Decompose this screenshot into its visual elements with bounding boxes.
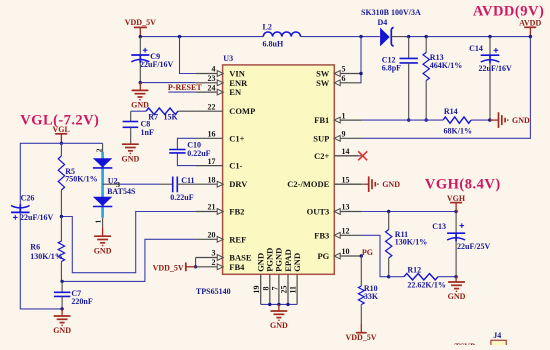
resistor R11 130K/1% bbox=[386, 212, 428, 277]
net label P-RESET bbox=[168, 83, 202, 92]
U3 right pin names bbox=[287, 69, 330, 262]
capacitor C12 6.8pF bbox=[382, 37, 418, 121]
capacitor C7 220nF bbox=[54, 281, 93, 309]
wire C26 down to C7 bottom bbox=[20, 212, 62, 309]
node junction VDD/C9 bbox=[139, 35, 142, 38]
svg-text:C2+: C2+ bbox=[314, 151, 329, 161]
node junction C12 bottom bbox=[407, 118, 410, 121]
svg-text:D4: D4 bbox=[378, 18, 388, 27]
svg-text:J4: J4 bbox=[493, 331, 501, 340]
svg-text:22uF/16V: 22uF/16V bbox=[479, 64, 513, 73]
svg-text:22: 22 bbox=[208, 102, 216, 111]
wire D4 cathode to AVDD rail bbox=[405, 36, 530, 38]
node junction OUT3/C13/VGH bbox=[454, 210, 457, 213]
wire U2 pin 3 to C11 bbox=[103, 183, 120, 185]
svg-text:10: 10 bbox=[342, 247, 350, 256]
svg-text:5: 5 bbox=[342, 65, 346, 74]
svg-text:464K/1%: 464K/1% bbox=[430, 61, 462, 70]
label TPS65140 bbox=[196, 287, 231, 296]
power AVDD bbox=[519, 19, 541, 37]
node junction VIN branch bbox=[178, 35, 181, 38]
svg-text:C1-: C1- bbox=[229, 161, 242, 171]
resistor R10 33K bbox=[358, 256, 379, 323]
node junction C7/GND bbox=[60, 307, 63, 310]
svg-text:220nF: 220nF bbox=[71, 297, 92, 306]
capacitor C26 22uF/16V bbox=[11, 194, 54, 222]
resistor R12 22.62K/1% bbox=[389, 265, 456, 289]
wire FB3 path bbox=[361, 235, 388, 276]
svg-text:19: 19 bbox=[252, 286, 261, 294]
svg-text:1: 1 bbox=[342, 111, 346, 120]
svg-text:VGH: VGH bbox=[447, 194, 466, 203]
svg-text:GND: GND bbox=[53, 326, 71, 335]
svg-text:750K/1%: 750K/1% bbox=[65, 174, 97, 183]
wire OUT3 row bbox=[361, 211, 456, 213]
wire REF path to pin 20 bbox=[62, 239, 196, 281]
svg-text:R14: R14 bbox=[444, 107, 458, 116]
svg-text:13: 13 bbox=[342, 203, 350, 212]
svg-text:9: 9 bbox=[342, 130, 346, 139]
svg-text:15: 15 bbox=[342, 175, 350, 184]
svg-text:EN: EN bbox=[229, 87, 242, 97]
svg-text:8: 8 bbox=[261, 287, 270, 291]
svg-text:R12: R12 bbox=[407, 265, 421, 274]
svg-text:18: 18 bbox=[208, 175, 216, 184]
ground at pin 15 (sideways) bbox=[334, 176, 400, 192]
svg-text:3: 3 bbox=[212, 249, 216, 258]
svg-text:TPS65140: TPS65140 bbox=[196, 287, 231, 296]
svg-text:FB1: FB1 bbox=[314, 115, 329, 125]
svg-text:0.22uF: 0.22uF bbox=[170, 193, 193, 202]
svg-text:VGH(8.4V): VGH(8.4V) bbox=[425, 176, 501, 192]
svg-text:VGL: VGL bbox=[53, 125, 70, 134]
U3 left pin arrows bbox=[217, 71, 223, 270]
ground below C9 bbox=[131, 83, 149, 110]
svg-text:4: 4 bbox=[212, 65, 216, 74]
svg-text:BAT54S: BAT54S bbox=[107, 187, 136, 196]
svg-text:GND: GND bbox=[512, 116, 530, 125]
ground below C13 bbox=[448, 277, 466, 302]
wire VDD_5V rail to L2 bbox=[140, 36, 263, 38]
svg-text:VDD_5V: VDD_5V bbox=[345, 333, 376, 342]
wire PG row bbox=[360, 255, 362, 257]
resistor R7 15K bbox=[131, 108, 196, 121]
U3 left pin stubs bbox=[196, 74, 223, 267]
wire L2 to D4 bbox=[301, 36, 380, 38]
svg-text:GND: GND bbox=[122, 154, 140, 163]
label U2 pin 3 bbox=[116, 180, 120, 189]
wire SW branch down bbox=[360, 37, 362, 83]
svg-text:22uF/25V: 22uF/25V bbox=[457, 242, 491, 251]
svg-text:6.8uH: 6.8uH bbox=[263, 39, 284, 48]
net label AVDD(9V) bbox=[473, 4, 544, 20]
ground below U3 bbox=[270, 304, 288, 330]
svg-text:25: 25 bbox=[280, 286, 289, 294]
power VGH bbox=[447, 194, 466, 212]
capacitor C13 22uF/25V bbox=[432, 212, 490, 277]
svg-text:FB2: FB2 bbox=[229, 207, 244, 217]
svg-text:C1+: C1+ bbox=[229, 133, 244, 143]
capacitor C14 22uF/16V bbox=[469, 37, 512, 121]
svg-text:C26: C26 bbox=[21, 194, 35, 203]
svg-text:U3: U3 bbox=[223, 54, 233, 63]
svg-text:VDD_5V: VDD_5V bbox=[125, 18, 156, 27]
svg-text:130K/1%: 130K/1% bbox=[395, 238, 427, 247]
U3 left pin names bbox=[229, 69, 255, 272]
svg-text:2: 2 bbox=[94, 148, 103, 152]
power VGL bbox=[53, 125, 70, 143]
resistor R6 130K/1% bbox=[30, 217, 64, 282]
wire VGL to C26 bbox=[20, 143, 61, 204]
svg-text:15K: 15K bbox=[164, 112, 179, 121]
svg-text:2: 2 bbox=[212, 258, 216, 267]
svg-text:SUP: SUP bbox=[313, 133, 329, 143]
svg-text:FB3: FB3 bbox=[314, 230, 329, 240]
svg-text:22uF/16V: 22uF/16V bbox=[140, 60, 174, 69]
wire VIN branch down to pin 4 bbox=[180, 37, 196, 74]
wire BASE/FB4 tie bbox=[195, 258, 197, 267]
svg-text:16: 16 bbox=[208, 130, 216, 139]
svg-text:OUT3: OUT3 bbox=[307, 207, 330, 217]
node junction PG/R10 bbox=[360, 254, 363, 257]
svg-text:C13: C13 bbox=[432, 222, 446, 231]
svg-text:GND: GND bbox=[382, 180, 400, 189]
label U2 refdes bbox=[107, 176, 136, 196]
net label VGL(-7.2V) bbox=[20, 112, 99, 128]
node junction SW pins bbox=[359, 72, 362, 75]
net label P-RESET wire to pin 24 bbox=[168, 91, 195, 93]
svg-text:C14: C14 bbox=[469, 44, 483, 53]
svg-text:FB4: FB4 bbox=[229, 262, 245, 272]
net label VGH(8.4V) bbox=[425, 176, 501, 192]
label TSVP (cut off) bbox=[455, 342, 476, 350]
ground below C7 bbox=[53, 309, 71, 335]
svg-text:68K/1%: 68K/1% bbox=[444, 127, 472, 136]
capacitor C11 0.22uF bbox=[120, 176, 196, 202]
svg-text:U2: U2 bbox=[108, 176, 118, 185]
U3 right pin arrows bbox=[334, 71, 340, 259]
svg-text:GND: GND bbox=[448, 292, 466, 301]
svg-text:GND: GND bbox=[94, 246, 112, 255]
power VDD_5V (at FB4) bbox=[153, 262, 196, 272]
svg-text:PG: PG bbox=[362, 248, 373, 257]
svg-text:6: 6 bbox=[342, 74, 346, 83]
diode D4 SK310B bbox=[361, 8, 421, 47]
net label PG bbox=[362, 248, 373, 257]
svg-text:C2-/MODE: C2-/MODE bbox=[287, 179, 329, 189]
wire FB1 row bbox=[361, 119, 443, 121]
node junction R14/C14/GND bbox=[488, 118, 491, 121]
node junction R11/R12/FB3 bbox=[387, 275, 390, 278]
node junction R13 top bbox=[425, 35, 428, 38]
U3 left pin numbers bbox=[208, 65, 216, 267]
svg-text:L2: L2 bbox=[263, 22, 272, 31]
node junction R13 bottom bbox=[425, 118, 428, 121]
node junction FB4/VDD bbox=[194, 265, 197, 268]
capacitor C10 0.22uF bbox=[169, 138, 210, 165]
connector J4 (partial) bbox=[491, 331, 506, 346]
svg-text:12: 12 bbox=[342, 227, 350, 236]
node junction C9/ENR/GND bbox=[139, 81, 142, 84]
svg-text:AVDD(9V): AVDD(9V) bbox=[473, 4, 544, 20]
svg-text:130K/1%: 130K/1% bbox=[30, 252, 62, 261]
ground right of R14 (sideways) bbox=[490, 112, 530, 128]
node junction C14 top bbox=[488, 35, 491, 38]
wire ENR to pin 23 bbox=[140, 82, 195, 84]
svg-text:17: 17 bbox=[208, 157, 216, 166]
svg-text:AVDD: AVDD bbox=[519, 19, 541, 28]
svg-text:21: 21 bbox=[208, 203, 216, 212]
svg-text:P-RESET: P-RESET bbox=[168, 83, 202, 92]
U3 bottom pin stubs bbox=[261, 274, 297, 304]
wire FB2 path to pin 21 bbox=[61, 212, 195, 273]
capacitor C9 22uF/16V bbox=[131, 37, 173, 83]
svg-text:1: 1 bbox=[93, 220, 102, 224]
inductor L2 6.8uH bbox=[263, 22, 301, 48]
svg-text:7: 7 bbox=[270, 287, 279, 291]
node junction R6/C7/REF bbox=[60, 280, 63, 283]
svg-text:SK310B 100V/3A: SK310B 100V/3A bbox=[361, 8, 421, 17]
svg-text:PG: PG bbox=[317, 251, 329, 261]
svg-text:22uF/16V: 22uF/16V bbox=[20, 213, 54, 222]
node junction C12 top bbox=[407, 35, 410, 38]
U3 bottom pin names GND PGND PGND EPAD GND bbox=[256, 248, 302, 272]
svg-text:GND: GND bbox=[270, 321, 288, 330]
svg-text:VDD_5V: VDD_5V bbox=[153, 264, 184, 273]
svg-text:SW: SW bbox=[316, 78, 330, 88]
node junction R5/R6/FB2 bbox=[60, 215, 63, 218]
svg-text:C11: C11 bbox=[181, 176, 194, 185]
node junction R12/C13/GND bbox=[454, 275, 457, 278]
svg-text:11: 11 bbox=[289, 286, 298, 294]
U3 right pin numbers bbox=[342, 65, 350, 257]
node junction AVDD bbox=[529, 35, 532, 38]
node junctions bottom pins bbox=[268, 303, 290, 306]
svg-text:COMP: COMP bbox=[229, 106, 255, 116]
svg-text:22.62K/1%: 22.62K/1% bbox=[407, 280, 445, 289]
power VDD_5V (below R10) bbox=[345, 323, 376, 342]
svg-text:R6: R6 bbox=[30, 242, 40, 251]
wire VGL to U2 bbox=[61, 142, 102, 144]
resistor R13 464K/1% bbox=[423, 37, 462, 121]
node junction OUT3/R11 bbox=[387, 210, 390, 213]
svg-text:REF: REF bbox=[229, 234, 246, 244]
IC U3 TPS65140 body bbox=[223, 54, 335, 274]
svg-text:GND: GND bbox=[292, 253, 302, 272]
U3 bottom pin numbers 19 8 7 25 11 bbox=[252, 286, 297, 294]
node junction VGL bbox=[60, 142, 63, 145]
diode U2 BAT54S bbox=[93, 143, 112, 223]
resistor R5 750K/1% bbox=[58, 143, 97, 216]
svg-text:33K: 33K bbox=[364, 292, 379, 301]
U3 right pin stubs bbox=[334, 74, 361, 257]
svg-text:GND: GND bbox=[131, 101, 149, 110]
svg-text:23: 23 bbox=[208, 74, 216, 83]
ground below U2 bbox=[94, 218, 112, 256]
node junction SW branch bbox=[359, 35, 362, 38]
svg-text:24: 24 bbox=[208, 83, 216, 92]
svg-text:20: 20 bbox=[208, 231, 216, 240]
svg-text:DRV: DRV bbox=[229, 179, 248, 189]
svg-text:1nF: 1nF bbox=[141, 128, 154, 137]
capacitor C8 1nF bbox=[123, 111, 154, 144]
svg-text:6.8pF: 6.8pF bbox=[382, 64, 401, 73]
resistor R14 68K/1% bbox=[443, 107, 490, 136]
wire bottom pins tie bbox=[261, 303, 297, 305]
wire AVDD down to SUP bbox=[361, 37, 530, 139]
svg-text:14: 14 bbox=[342, 147, 350, 156]
no-connect X at pin 14 bbox=[334, 151, 367, 160]
power VDD_5V (top left) bbox=[125, 18, 156, 37]
ground below C8 bbox=[122, 144, 140, 163]
